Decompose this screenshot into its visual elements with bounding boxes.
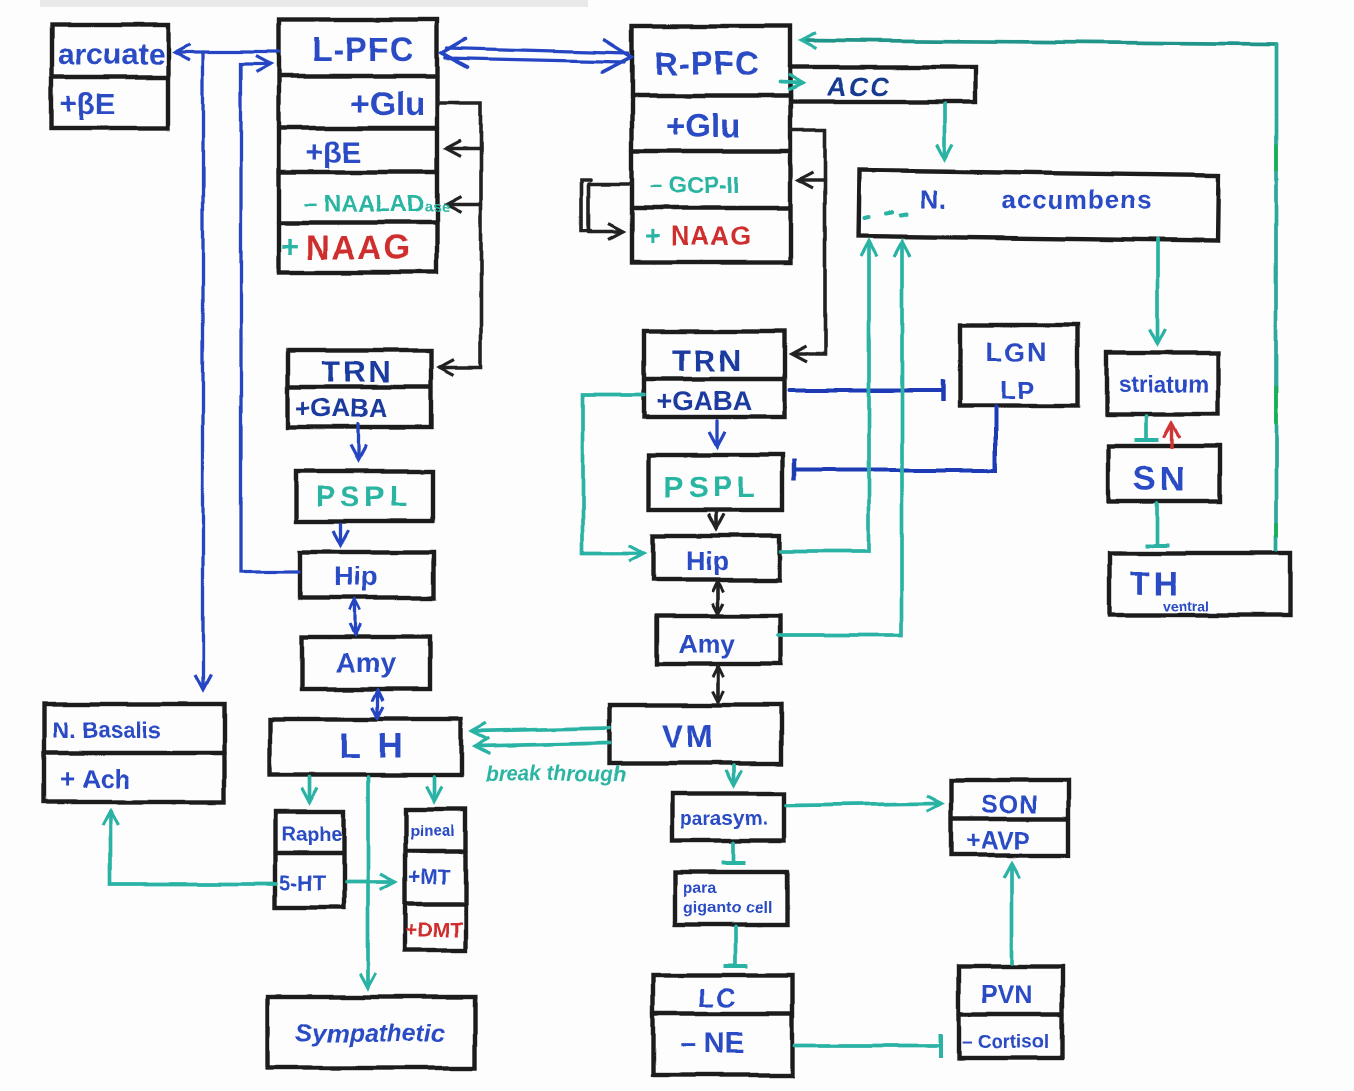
svg-text:giganto cell: giganto cell (683, 900, 772, 917)
svg-text:TRN: TRN (321, 354, 394, 389)
svg-text:+DMT: +DMT (405, 919, 463, 942)
svg-text:LGN: LGN (986, 337, 1049, 367)
svg-text:Amy: Amy (679, 629, 736, 659)
svg-text:PVN: PVN (981, 981, 1032, 1009)
svg-text:SON: SON (981, 791, 1038, 819)
svg-text:arcuate: arcuate (58, 38, 165, 71)
svg-text:TH: TH (1130, 565, 1182, 602)
svg-text:NAAG: NAAG (306, 229, 411, 266)
svg-text:+ Ach: + Ach (60, 764, 131, 794)
svg-text:L-PFC: L-PFC (312, 31, 414, 68)
svg-text:NAAG: NAAG (671, 221, 752, 251)
svg-text:Hip: Hip (686, 546, 730, 576)
svg-text:Raphe: Raphe (281, 824, 342, 846)
svg-text:L H: L H (339, 727, 407, 766)
svg-text:LC: LC (698, 983, 738, 1013)
svg-text:N.: N. (920, 185, 948, 215)
svg-text:+βE: +βE (60, 88, 116, 121)
svg-text:+: + (645, 221, 661, 251)
svg-text:Amy: Amy (335, 647, 396, 678)
svg-text:+GABA: +GABA (656, 386, 751, 416)
svg-text:ventral: ventral (1163, 598, 1209, 614)
svg-text:PSPL: PSPL (664, 472, 760, 504)
svg-text:para: para (683, 880, 717, 897)
svg-text:VM: VM (662, 718, 716, 754)
svg-text:+GABA: +GABA (296, 393, 388, 423)
svg-text:TRN: TRN (672, 343, 745, 378)
svg-text:SN: SN (1134, 460, 1189, 498)
svg-text:– GCP-II: – GCP-II (650, 172, 739, 198)
svg-text:+MT: +MT (408, 866, 451, 889)
svg-text:+βE: +βE (306, 136, 362, 169)
svg-text:pineal: pineal (409, 823, 455, 840)
svg-text:Sympathetic: Sympathetic (296, 1019, 445, 1047)
svg-text:Hip: Hip (333, 561, 378, 592)
svg-text:break through: break through (485, 763, 626, 786)
svg-text:striatum: striatum (1118, 371, 1209, 397)
svg-text:+Glu: +Glu (666, 107, 740, 144)
svg-text:accumbens: accumbens (1001, 185, 1153, 215)
svg-text:LP: LP (1000, 375, 1037, 405)
svg-text:+Glu: +Glu (350, 85, 424, 122)
svg-text:PSPL: PSPL (316, 481, 412, 513)
svg-text:+: + (281, 229, 299, 264)
svg-text:– NE: – NE (680, 1028, 744, 1060)
svg-text:– Cortisol: – Cortisol (962, 1032, 1050, 1053)
svg-text:R-PFC: R-PFC (654, 45, 760, 82)
svg-text:ACC: ACC (826, 71, 895, 102)
svg-text:parasym.: parasym. (680, 808, 768, 830)
svg-text:N. Basalis: N. Basalis (52, 717, 162, 743)
svg-text:5-HT: 5-HT (279, 872, 326, 895)
svg-text:+AVP: +AVP (966, 827, 1030, 855)
